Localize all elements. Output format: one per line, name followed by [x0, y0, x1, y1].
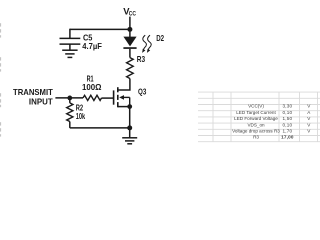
- resistor R3: [127, 58, 134, 79]
- svg-text:INPUT: INPUT: [29, 97, 53, 106]
- spreadsheet labels column: [232, 104, 280, 140]
- svg-text:Q3: Q3: [138, 87, 147, 97]
- label R2 value: [76, 103, 86, 122]
- node source junction: [127, 104, 132, 109]
- svg-text:1,70: 1,70: [283, 129, 293, 134]
- svg-text:100Ω: 100Ω: [82, 82, 102, 92]
- svg-text:3,30: 3,30: [283, 104, 293, 109]
- svg-text:LED Target Current: LED Target Current: [236, 110, 276, 115]
- wire input lead: [55, 97, 83, 99]
- spreadsheet gridlines: [198, 92, 320, 142]
- svg-text:4.7µF: 4.7µF: [82, 41, 102, 51]
- node junction VCC: [127, 27, 132, 32]
- ground below Q3: [122, 128, 137, 144]
- svg-text:D2: D2: [156, 33, 164, 43]
- node input junction: [67, 96, 72, 101]
- wire source down: [129, 107, 131, 128]
- wire C5 stub: [69, 29, 71, 39]
- spreadsheet units column: [307, 104, 311, 134]
- label TRANSMIT INPUT: [13, 88, 53, 106]
- transistor Q3 source bar: [118, 106, 130, 108]
- svg-text:R3: R3: [253, 135, 259, 140]
- transistor Q3 body arrow: [119, 95, 130, 107]
- LED D2: [123, 37, 136, 49]
- wire VCC to LED anode: [129, 29, 131, 37]
- label C5 value: [82, 33, 102, 51]
- spreadsheet values column: [281, 104, 294, 140]
- svg-text:VDS_on: VDS_on: [247, 122, 265, 127]
- svg-text:TRANSMIT: TRANSMIT: [13, 88, 53, 97]
- resistor R2: [67, 98, 73, 128]
- svg-text:CC: CC: [129, 10, 136, 17]
- wire top rail to C5: [70, 28, 130, 30]
- wire R1 to gate: [102, 97, 114, 99]
- label R1 value: [82, 74, 102, 93]
- wire LED cathode to R3: [129, 49, 131, 58]
- resistor R1: [83, 95, 102, 100]
- wire R3 to drain: [118, 79, 130, 91]
- LED light arrows: [143, 35, 151, 50]
- wire bottom rail: [70, 127, 130, 129]
- transistor Q3 gate bar: [113, 90, 115, 104]
- svg-text:0,10: 0,10: [283, 110, 293, 115]
- svg-text:17,00: 17,00: [281, 135, 294, 140]
- svg-text:1,50: 1,50: [283, 116, 293, 121]
- ground below C5: [62, 50, 77, 57]
- left edge crop marks: [0, 23, 1, 136]
- node ground junction: [127, 125, 132, 130]
- capacitor C5: [60, 38, 81, 50]
- svg-text:R3: R3: [137, 54, 146, 64]
- svg-text:0,10: 0,10: [283, 122, 293, 127]
- transistor Q3 channel segments: [117, 87, 119, 107]
- label VCC: [123, 5, 136, 17]
- svg-text:10k: 10k: [76, 111, 86, 121]
- svg-text:Voltage drop across R3: Voltage drop across R3: [232, 129, 280, 134]
- svg-text:VCC(V): VCC(V): [248, 104, 264, 109]
- wire VCC stem: [129, 17, 131, 30]
- svg-text:LED Forward Voltage: LED Forward Voltage: [234, 116, 278, 121]
